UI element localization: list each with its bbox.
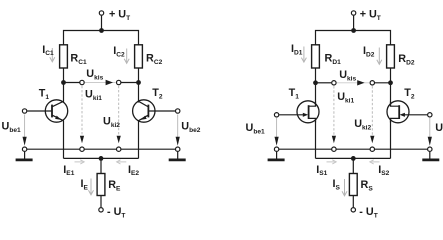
current arrow IC2 (124, 49, 129, 64)
current arrow IC1 (50, 48, 55, 62)
junction: drain T2 (388, 80, 393, 85)
wire: RC1 to collector node (63, 68, 65, 103)
wire: +UT stub left circuit (101, 16, 103, 31)
terminal gate T1 (274, 113, 278, 117)
wire: RE to -UT terminal (100, 196, 102, 208)
voltage arrow Uki2 (117, 86, 121, 143)
terminal Ukis right (117, 80, 121, 84)
terminal Uki2 bottom right circuit (370, 147, 374, 151)
wire: emitter T2 down (138, 120, 140, 158)
current arrow ID2 (377, 48, 382, 65)
wire: source T1 down (315, 118, 317, 158)
faint link line Ukis right circuit (337, 82, 369, 84)
wire: RD2 to drain node (390, 68, 392, 106)
terminal Ukis right circuit right (370, 81, 374, 85)
ground right circuit right (422, 152, 439, 160)
resistor RC2 (135, 45, 143, 68)
faint link line Ukis (85, 82, 116, 84)
voltage arrow Uki1 right circuit (332, 86, 336, 143)
terminal base T2 (176, 109, 180, 113)
junction: collector T2 (136, 80, 141, 85)
wire: RC2 to collector node (138, 68, 140, 103)
voltage arrow Ube1 right circuit (275, 118, 279, 146)
wire: collector T1 node to Ukis terminal (64, 82, 81, 84)
terminal Uki1 bottom right circuit (332, 147, 336, 151)
current arrow IE1 (75, 160, 85, 164)
terminal Ukis left (80, 80, 84, 84)
ground left circuit right (169, 152, 186, 160)
wire: source rail to RS (352, 158, 354, 173)
ground right circuit left (268, 152, 285, 160)
current arrow IS2 (370, 160, 380, 164)
wire: source T2 down (390, 118, 392, 158)
voltage arrow Ukis (106, 80, 113, 85)
current arrow IE (89, 179, 94, 195)
junction: collector T1 (61, 80, 66, 85)
ground left circuit left (16, 152, 33, 160)
junction: drain T1 (313, 80, 318, 85)
terminal ref rail far left (22, 147, 26, 151)
resistor RD1 (312, 45, 320, 68)
terminal gate T2 (428, 113, 432, 117)
terminal base T1 (22, 109, 26, 113)
voltage arrow Ukis right circuit (357, 80, 364, 85)
current arrow IS1 (327, 160, 337, 164)
source rail right circuit (316, 157, 391, 159)
transistor T1 (npn) (27, 100, 67, 122)
wire: top rail right circuit (316, 31, 391, 46)
resistor RD2 (387, 45, 395, 68)
voltage arrow Ube1 (23, 115, 27, 146)
resistor RC1 (60, 45, 68, 68)
current arrow ID1 (301, 47, 306, 63)
terminal ref rail far right (176, 147, 180, 151)
resistor RS (349, 174, 357, 196)
resistor RE (97, 174, 105, 196)
terminal ref rail right circuit far right (428, 147, 432, 151)
voltage arrow Ube2 (176, 115, 180, 146)
terminal +UT left circuit (99, 11, 103, 15)
junction: top rail center left circuit (99, 28, 104, 33)
voltage arrow Uki2 right circuit (370, 86, 374, 143)
terminal -UT right circuit (351, 208, 355, 212)
wire: RS to -UT terminal (352, 196, 354, 208)
wire: RD1 to drain node (315, 68, 317, 106)
terminal +UT right circuit (351, 11, 355, 15)
reference rail left circuit (25, 148, 178, 150)
transistor T2 (npn, mirrored) (133, 100, 176, 122)
junction: top rail center right circuit (351, 28, 356, 33)
wire: Ukis terminal to collector T2 node (121, 82, 139, 84)
terminal Uki2 bottom (117, 147, 121, 151)
junction: source rail center (351, 156, 356, 161)
voltage arrow Uki1 (80, 86, 84, 143)
transistor T2 (n-JFET, mirrored) (387, 101, 427, 123)
terminal Uki1 bottom (80, 147, 84, 151)
wire: top rail left circuit (64, 31, 139, 46)
voltage arrow Ube2 right circuit (428, 118, 432, 146)
wire: emitter T1 down (63, 120, 65, 158)
emitter rail left circuit (64, 157, 139, 159)
current arrow IS (342, 179, 347, 196)
transistor T1 (n-JFET) (279, 101, 319, 123)
wire: Ukis terminal to drain T2 node (374, 82, 390, 84)
junction: emitter rail center (99, 156, 104, 161)
wire: drain T1 node to Ukis terminal (316, 82, 332, 84)
current arrow IE2 (117, 160, 127, 164)
wire: +UT stub right circuit (353, 16, 355, 31)
terminal Ukis right circuit left (332, 81, 336, 85)
terminal ref rail right circuit far left (274, 147, 278, 151)
reference rail right circuit (277, 148, 430, 150)
terminal -UT left circuit (99, 208, 103, 212)
svg-text:Ube2: Ube2 (435, 122, 443, 136)
wire: emitter rail to RE (100, 158, 102, 173)
